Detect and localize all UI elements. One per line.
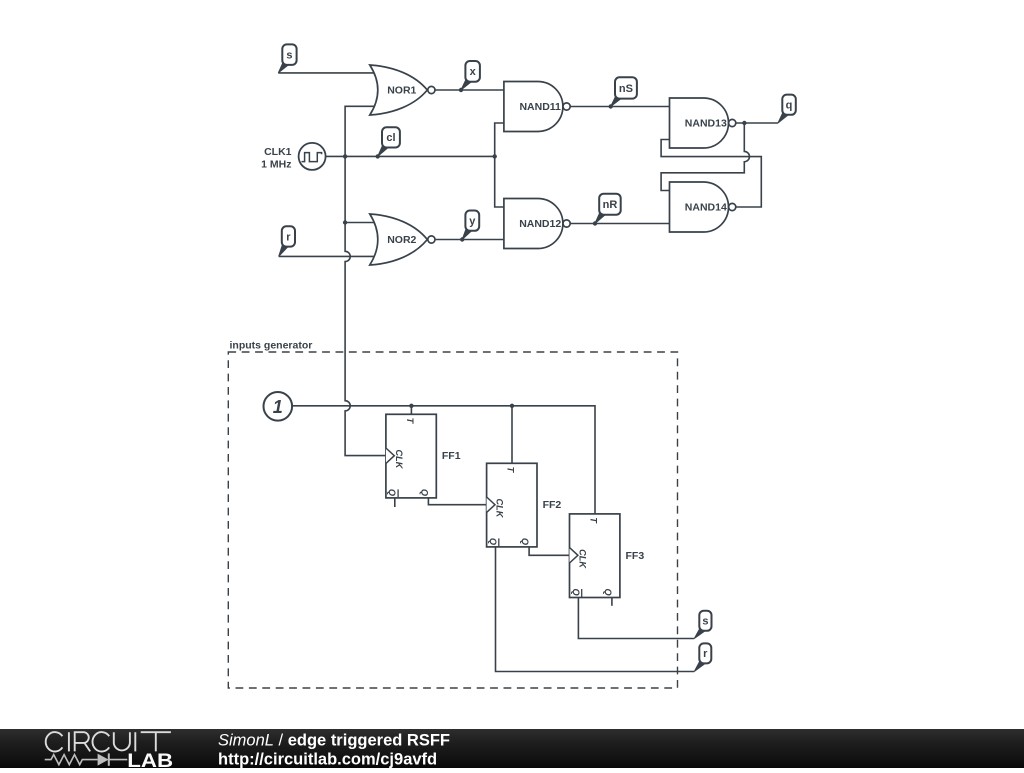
svg-text:nR: nR <box>603 199 618 211</box>
svg-text:x: x <box>470 66 477 78</box>
svg-text:1 MHz: 1 MHz <box>261 159 291 171</box>
svg-text:Q: Q <box>603 589 613 596</box>
svg-text:NAND12: NAND12 <box>519 218 561 230</box>
svg-text:Q: Q <box>571 589 581 596</box>
svg-text:CLK: CLK <box>495 499 505 519</box>
svg-text:Q: Q <box>488 538 498 545</box>
svg-text:r: r <box>286 231 291 243</box>
svg-text:http://circuitlab.com/cj9avfd: http://circuitlab.com/cj9avfd <box>218 751 437 769</box>
svg-text:FF2: FF2 <box>543 499 562 511</box>
svg-text:FF1: FF1 <box>442 450 461 462</box>
svg-text:1: 1 <box>273 397 283 417</box>
svg-text:CLK: CLK <box>577 549 587 569</box>
svg-text:s: s <box>702 616 708 628</box>
svg-text:SimonL / edge triggered RSFF: SimonL / edge triggered RSFF <box>218 732 450 750</box>
svg-text:q: q <box>786 100 793 112</box>
svg-text:NAND14: NAND14 <box>685 202 727 214</box>
svg-text:FF3: FF3 <box>626 550 645 562</box>
svg-text:Q: Q <box>387 489 397 496</box>
svg-text:y: y <box>469 215 476 227</box>
svg-text:s: s <box>286 49 292 61</box>
svg-text:cl: cl <box>386 132 395 144</box>
svg-text:NAND13: NAND13 <box>685 118 727 130</box>
svg-text:CLK: CLK <box>394 450 404 470</box>
svg-text:LAB: LAB <box>127 750 173 768</box>
svg-text:r: r <box>703 648 708 660</box>
svg-text:Q: Q <box>520 538 530 545</box>
svg-text:inputs generator: inputs generator <box>230 340 313 352</box>
svg-text:NOR2: NOR2 <box>387 234 416 246</box>
svg-text:nS: nS <box>619 83 633 95</box>
svg-text:Q: Q <box>420 489 430 496</box>
svg-text:CLK1: CLK1 <box>264 146 292 158</box>
svg-text:NAND11: NAND11 <box>519 101 561 113</box>
svg-text:NOR1: NOR1 <box>387 85 416 97</box>
